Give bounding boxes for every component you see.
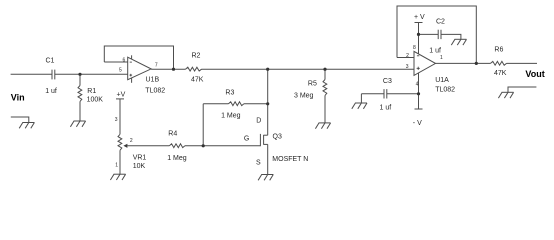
svg-text:1 uf: 1 uf	[429, 48, 441, 55]
svg-text:MOSFET N: MOSFET N	[272, 156, 308, 163]
svg-text:6: 6	[123, 57, 126, 63]
svg-text:1 Meg: 1 Meg	[167, 155, 187, 162]
svg-text:10K: 10K	[133, 163, 146, 170]
svg-text:1: 1	[440, 55, 443, 61]
svg-text:U1B: U1B	[146, 76, 160, 83]
svg-text:TL082: TL082	[145, 88, 165, 95]
svg-text:TL082: TL082	[435, 87, 455, 94]
svg-text:D: D	[256, 117, 261, 124]
svg-text:R2: R2	[192, 52, 201, 59]
svg-text:3: 3	[406, 64, 409, 70]
svg-text:+V: +V	[117, 92, 126, 99]
svg-text:1: 1	[115, 163, 118, 169]
svg-text:100K: 100K	[87, 96, 104, 103]
svg-text:1 uf: 1 uf	[45, 88, 57, 95]
svg-text:R3: R3	[225, 89, 234, 96]
svg-text:VR1: VR1	[133, 155, 147, 162]
svg-text:3: 3	[115, 117, 118, 123]
svg-text:Vin: Vin	[11, 93, 25, 103]
svg-text:C2: C2	[436, 18, 445, 25]
svg-text:3 Meg: 3 Meg	[294, 93, 314, 100]
svg-text:2: 2	[130, 138, 133, 144]
svg-text:- V: - V	[413, 120, 422, 127]
svg-text:47K: 47K	[191, 76, 204, 83]
svg-text:U1A: U1A	[435, 77, 449, 84]
svg-text:47K: 47K	[494, 70, 507, 77]
svg-text:7: 7	[155, 62, 158, 68]
svg-text:Vout: Vout	[525, 69, 544, 79]
svg-text:+ V: + V	[414, 14, 425, 21]
svg-text:C3: C3	[383, 78, 392, 85]
svg-text:8: 8	[413, 45, 416, 51]
svg-text:C1: C1	[46, 58, 55, 65]
svg-text:R4: R4	[168, 131, 177, 138]
svg-text:1 Meg: 1 Meg	[221, 112, 241, 119]
svg-text:R6: R6	[494, 47, 503, 54]
svg-text:5: 5	[119, 68, 122, 74]
svg-text:R1: R1	[87, 88, 96, 95]
svg-text:S: S	[256, 160, 261, 167]
svg-text:4: 4	[416, 81, 419, 87]
svg-text:Q3: Q3	[273, 133, 282, 140]
svg-text:1 uf: 1 uf	[380, 104, 392, 111]
svg-text:R5: R5	[308, 81, 317, 88]
svg-text:G: G	[244, 135, 249, 142]
svg-text:2: 2	[406, 53, 409, 59]
